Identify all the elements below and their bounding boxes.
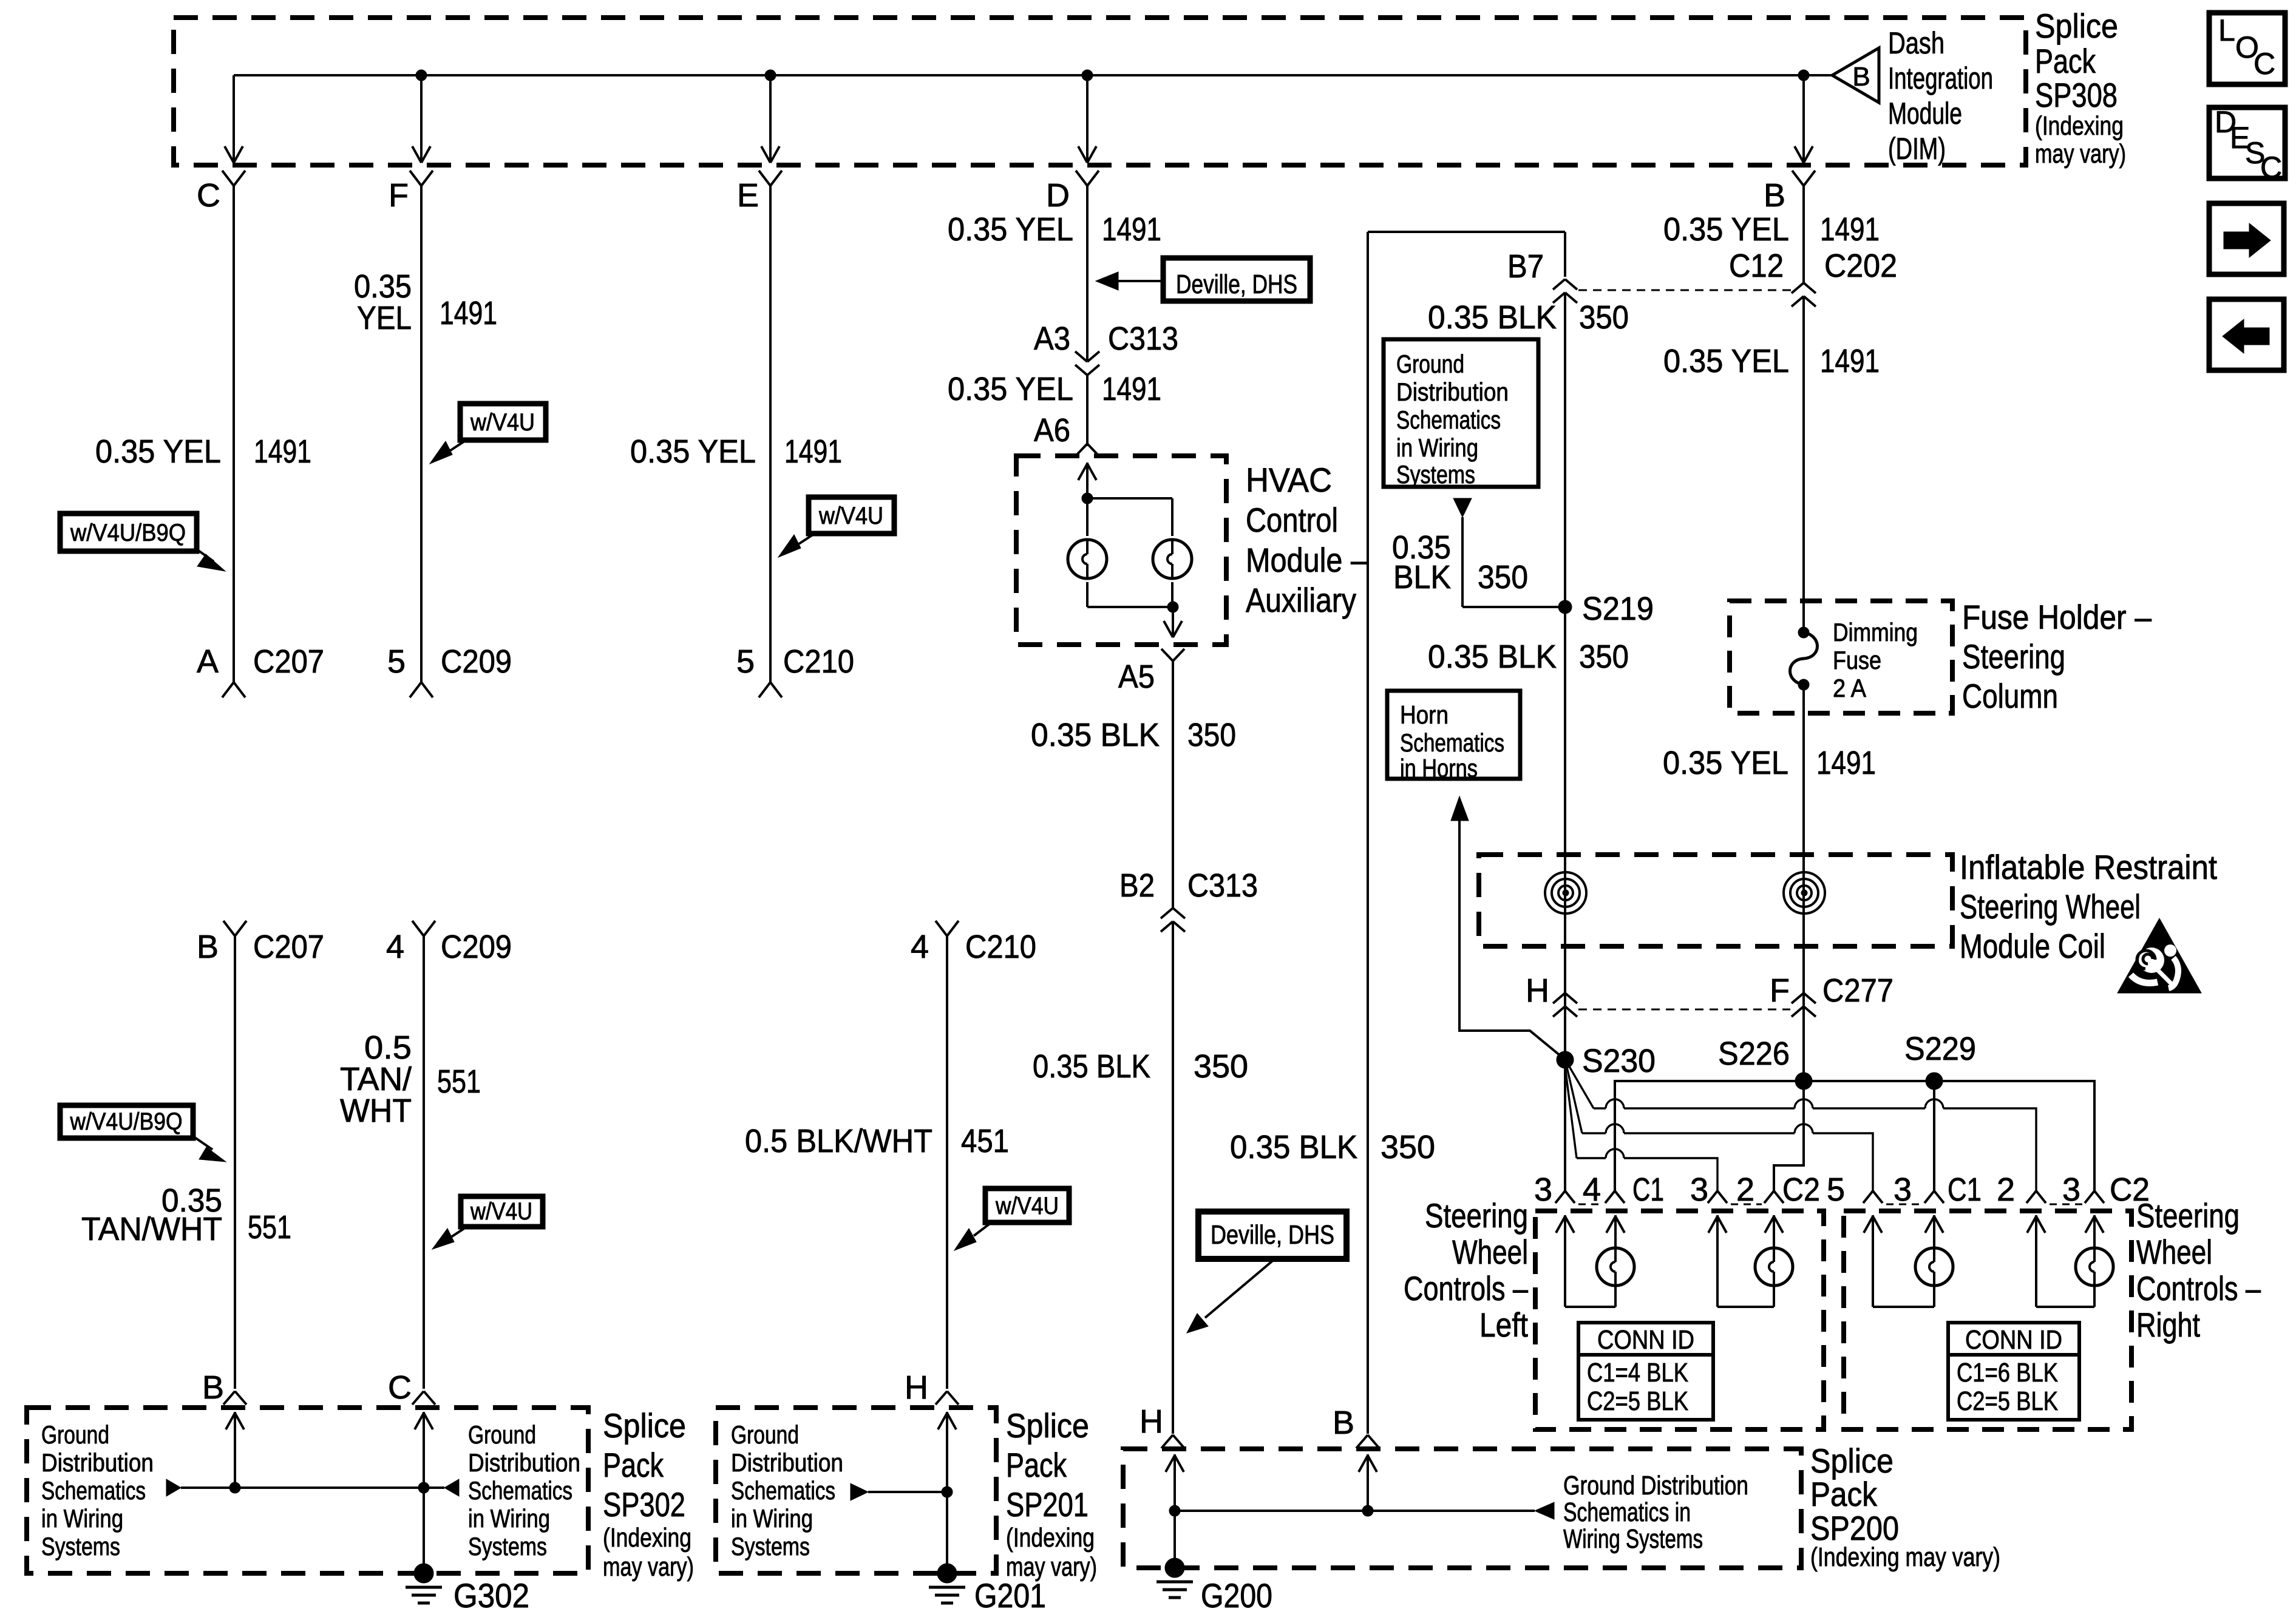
bus exit arrow bbox=[1078, 146, 1096, 163]
svg-text:551: 551 bbox=[248, 1209, 291, 1246]
label Splice Pack SP200 bbox=[1810, 1442, 2000, 1572]
wire A5 to C313 bbox=[1172, 661, 1174, 908]
label 0.35 YEL 1491 (E) bbox=[630, 433, 842, 470]
svg-text:Horn: Horn bbox=[1400, 700, 1449, 729]
connector name C1 (right) bbox=[1948, 1171, 1982, 1208]
note box w/V4U (E) bbox=[778, 497, 894, 557]
lamp HVAC left bbox=[1068, 540, 1107, 578]
svg-text:Pack: Pack bbox=[603, 1446, 664, 1484]
note box Deville DHS (upper) bbox=[1096, 258, 1310, 301]
connector name C2 (right) bbox=[2110, 1171, 2150, 1208]
svg-text:0.35 BLK: 0.35 BLK bbox=[1033, 1048, 1150, 1085]
wire drop F bbox=[420, 75, 423, 161]
svg-text:350: 350 bbox=[1381, 1129, 1435, 1165]
svg-text:CONN ID: CONN ID bbox=[1965, 1325, 2062, 1355]
svg-text:3: 3 bbox=[1690, 1171, 1708, 1208]
connector C277 F bbox=[1792, 972, 1894, 1017]
svg-text:0.35: 0.35 bbox=[354, 268, 412, 305]
fuse holder dashed box bbox=[1730, 601, 1952, 713]
svg-text:C1: C1 bbox=[1948, 1171, 1982, 1208]
svg-text:0.35 BLK: 0.35 BLK bbox=[1230, 1129, 1357, 1165]
label 0.35 YEL 1491 (B1) bbox=[1663, 211, 1880, 248]
svg-text:C2: C2 bbox=[1782, 1171, 1820, 1208]
svg-text:C: C bbox=[2254, 47, 2275, 81]
connector pin 2 bbox=[1736, 1171, 1784, 1208]
svg-text:5: 5 bbox=[1827, 1171, 1845, 1208]
svg-text:5: 5 bbox=[387, 643, 406, 680]
thin dashed link H-F bbox=[1578, 1009, 1790, 1011]
svg-text:C210: C210 bbox=[783, 643, 854, 680]
pin A6 bbox=[1034, 412, 1070, 449]
svg-text:Distribution: Distribution bbox=[731, 1448, 843, 1477]
svg-text:in Wiring: in Wiring bbox=[1396, 433, 1478, 462]
svg-text:in Wiring: in Wiring bbox=[468, 1504, 550, 1533]
SP302 wire B bbox=[226, 1412, 244, 1488]
svg-text:G200: G200 bbox=[1201, 1576, 1272, 1615]
svg-text:TAN/: TAN/ bbox=[340, 1061, 412, 1097]
junction dot B bbox=[1798, 70, 1809, 81]
fan level0 wire bbox=[1615, 1081, 2094, 1191]
ref arrow left (SP302) bbox=[166, 1479, 181, 1496]
svg-text:G302: G302 bbox=[453, 1576, 529, 1615]
bus exit arrow bbox=[225, 146, 243, 163]
pin A bbox=[197, 643, 219, 680]
svg-text:C202: C202 bbox=[1824, 248, 1897, 284]
CONN ID table (left) bbox=[1578, 1323, 1713, 1420]
svg-text:B: B bbox=[202, 1369, 224, 1406]
steering wheel controls right dashed box bbox=[1844, 1211, 2131, 1429]
svg-text:C277: C277 bbox=[1822, 972, 1894, 1009]
button DESC bbox=[2209, 105, 2285, 185]
connector pin 2 bbox=[1997, 1171, 2046, 1208]
connector A5 bbox=[1118, 649, 1184, 695]
fan level1 wire bbox=[1567, 1063, 2036, 1191]
svg-text:0.35 BLK: 0.35 BLK bbox=[1031, 717, 1160, 753]
connector pin 3 bbox=[1534, 1171, 1575, 1208]
connector pin 3 bbox=[1690, 1171, 1727, 1208]
wire B2 to SP200 bbox=[1172, 921, 1174, 1434]
wire B mid bbox=[1802, 296, 1805, 632]
splice S226 bbox=[1718, 1036, 1812, 1090]
svg-text:Left: Left bbox=[1479, 1306, 1528, 1344]
SP200 rail bbox=[1175, 1510, 1535, 1512]
connector C277 H bbox=[1553, 993, 1577, 1017]
HVAC module dashed box bbox=[1016, 456, 1226, 645]
svg-text:2: 2 bbox=[1997, 1171, 2015, 1208]
svg-text:350: 350 bbox=[1579, 639, 1629, 675]
button LOC bbox=[2209, 13, 2285, 84]
pin C (SP302) bbox=[388, 1369, 412, 1406]
connector E exit bbox=[759, 171, 782, 186]
svg-text:551: 551 bbox=[437, 1063, 481, 1100]
SP200 wire B bbox=[1359, 1454, 1377, 1511]
label 0.35 BLK 350 (B7) bbox=[1428, 299, 1629, 336]
pin B2 bbox=[1119, 867, 1155, 904]
svg-text:YEL: YEL bbox=[357, 300, 412, 336]
label 0.5 TAN/WHT 551 bbox=[340, 1029, 481, 1129]
svg-text:may vary): may vary) bbox=[1006, 1552, 1097, 1582]
pin letter B bbox=[1764, 177, 1785, 214]
svg-text:Distribution: Distribution bbox=[468, 1448, 580, 1477]
svg-text:G201: G201 bbox=[974, 1576, 1046, 1615]
label Steering Wheel Controls - Right bbox=[2136, 1196, 2261, 1344]
pin 5 (C209) bbox=[387, 643, 406, 680]
label Ground Distribution Schematics in Wiring Systems (SP200) bbox=[1563, 1471, 1748, 1554]
svg-text:A: A bbox=[197, 643, 219, 680]
connector C210 bbox=[759, 643, 854, 697]
svg-text:C12: C12 bbox=[1729, 248, 1784, 284]
svg-text:1491: 1491 bbox=[440, 295, 497, 331]
ref arrow (SP201) bbox=[851, 1483, 868, 1500]
svg-text:A5: A5 bbox=[1118, 659, 1155, 695]
pin H (C277) bbox=[1526, 972, 1549, 1009]
svg-text:Ground: Ground bbox=[1396, 350, 1464, 378]
svg-text:w/V4U/B9Q: w/V4U/B9Q bbox=[70, 1108, 183, 1135]
svg-text:C: C bbox=[2260, 151, 2282, 185]
pin 5 (C210) bbox=[736, 643, 755, 680]
splice pack SP201 dashed box bbox=[716, 1408, 996, 1573]
svg-text:5: 5 bbox=[736, 643, 755, 680]
svg-text:4: 4 bbox=[1583, 1171, 1601, 1208]
svg-text:Fuse Holder –: Fuse Holder – bbox=[1962, 598, 2152, 636]
svg-text:C1=4 BLK: C1=4 BLK bbox=[1587, 1358, 1688, 1388]
splice pack SP200 dashed box bbox=[1123, 1449, 1801, 1568]
svg-text:(Indexing: (Indexing bbox=[603, 1523, 691, 1553]
bus exit arrow bbox=[1795, 146, 1813, 163]
HVAC junction dot bbox=[1082, 493, 1093, 504]
svg-text:1491: 1491 bbox=[1102, 371, 1161, 407]
connector H into SP200 bbox=[1161, 1435, 1184, 1448]
wire S229 to pin 3 bbox=[1933, 1090, 1935, 1191]
svg-text:TAN/WHT: TAN/WHT bbox=[81, 1211, 222, 1247]
connector C313 upper bbox=[1075, 320, 1178, 375]
svg-text:A3: A3 bbox=[1034, 320, 1070, 357]
CONN ID table (right) bbox=[1948, 1323, 2079, 1420]
svg-text:C207: C207 bbox=[253, 929, 324, 965]
svg-text:S219: S219 bbox=[1582, 591, 1654, 627]
svg-text:Wiring Systems: Wiring Systems bbox=[1563, 1524, 1703, 1554]
label Splice Pack SP308 bbox=[2035, 7, 2126, 169]
svg-text:Integration: Integration bbox=[1888, 61, 1993, 95]
svg-text:C2=5 BLK: C2=5 BLK bbox=[1587, 1386, 1688, 1416]
ground G302 bbox=[406, 1564, 529, 1615]
svg-text:Systems: Systems bbox=[41, 1532, 120, 1561]
coil right bbox=[1784, 872, 1825, 914]
svg-text:Module Coil: Module Coil bbox=[1960, 927, 2105, 965]
svg-text:0.35 YEL: 0.35 YEL bbox=[948, 211, 1073, 248]
lamp HVAC right bbox=[1153, 540, 1192, 578]
pin A3 bbox=[1034, 320, 1070, 357]
svg-text:w/V4U: w/V4U bbox=[470, 409, 535, 436]
svg-text:B7: B7 bbox=[1507, 248, 1544, 285]
svg-text:w/V4U: w/V4U bbox=[470, 1198, 532, 1225]
svg-text:Control: Control bbox=[1246, 501, 1338, 539]
svg-text:B2: B2 bbox=[1119, 867, 1155, 904]
pin C12 bbox=[1729, 248, 1784, 284]
ref box Ground Distribution Schematics in Wiring Systems bbox=[1384, 339, 1538, 489]
SP302 rail bbox=[181, 1486, 444, 1489]
connector name C1 (left) bbox=[1632, 1171, 1664, 1208]
svg-text:SP302: SP302 bbox=[603, 1485, 685, 1524]
steering wheel controls left dashed box bbox=[1535, 1211, 1824, 1429]
HVAC entry wire bbox=[1078, 463, 1096, 536]
svg-text:SP308: SP308 bbox=[2035, 76, 2118, 114]
wire B upper bbox=[1802, 186, 1805, 283]
svg-text:B: B bbox=[1764, 177, 1785, 214]
svg-text:Wheel: Wheel bbox=[1452, 1233, 1528, 1271]
svg-text:C2=5 BLK: C2=5 BLK bbox=[1957, 1386, 2058, 1416]
ground G201 bbox=[929, 1564, 1046, 1615]
svg-text:Deville, DHS: Deville, DHS bbox=[1176, 269, 1297, 299]
connector pin 3 bbox=[2062, 1171, 2104, 1208]
SP200 wire H bbox=[1166, 1454, 1184, 1568]
svg-text:Column: Column bbox=[1962, 677, 2058, 715]
svg-text:SP200: SP200 bbox=[1810, 1509, 1899, 1547]
svg-text:1491: 1491 bbox=[254, 433, 311, 470]
svg-text:C1: C1 bbox=[1632, 1171, 1664, 1208]
svg-text:E: E bbox=[737, 177, 759, 214]
svg-text:may vary): may vary) bbox=[2035, 139, 2126, 169]
svg-text:H: H bbox=[1526, 972, 1549, 1009]
splice pack SP302 dashed box bbox=[27, 1408, 588, 1573]
splice pack SP308 dashed box bbox=[174, 18, 2026, 165]
svg-text:Schematics: Schematics bbox=[1400, 728, 1504, 757]
coil left bbox=[1545, 872, 1586, 914]
label 0.35 BLK 350 (B2) bbox=[1033, 1048, 1248, 1085]
wire C to C207 bbox=[233, 186, 235, 682]
label 0.5 BLK/WHT 451 bbox=[745, 1123, 1009, 1159]
svg-text:1491: 1491 bbox=[1816, 745, 1876, 781]
svg-text:350: 350 bbox=[1187, 717, 1236, 753]
connector C202 bbox=[1792, 248, 1897, 307]
svg-text:Schematics: Schematics bbox=[468, 1476, 572, 1505]
svg-text:4: 4 bbox=[911, 929, 929, 965]
svg-text:C313: C313 bbox=[1187, 867, 1258, 904]
pin B (SP200) bbox=[1333, 1405, 1354, 1441]
svg-text:w/V4U/B9Q: w/V4U/B9Q bbox=[70, 520, 186, 546]
svg-text:0.35 YEL: 0.35 YEL bbox=[95, 433, 221, 470]
svg-text:Dash: Dash bbox=[1888, 26, 1944, 60]
wire to S219 bbox=[1462, 517, 1565, 607]
svg-text:(DIM): (DIM) bbox=[1888, 132, 1946, 166]
wire S226 to pin 2 bbox=[1774, 1090, 1804, 1191]
svg-text:C1=6 BLK: C1=6 BLK bbox=[1957, 1358, 2058, 1388]
svg-text:C210: C210 bbox=[965, 929, 1036, 965]
svg-text:WHT: WHT bbox=[340, 1093, 412, 1129]
pin H (SP200) bbox=[1140, 1403, 1163, 1440]
ref arrow right (SP302) bbox=[444, 1479, 459, 1496]
label 0.35 YEL 1491 (B2) bbox=[1663, 343, 1880, 379]
svg-text:F: F bbox=[1770, 972, 1790, 1009]
connector B into SP200 bbox=[1356, 1435, 1379, 1448]
svg-text:H: H bbox=[905, 1369, 928, 1406]
svg-text:B: B bbox=[1333, 1405, 1354, 1441]
label Dimming Fuse 2 A bbox=[1833, 618, 1918, 702]
svg-text:Auxiliary: Auxiliary bbox=[1246, 581, 1356, 619]
svg-text:C209: C209 bbox=[441, 643, 512, 680]
svg-text:HVAC: HVAC bbox=[1246, 461, 1332, 499]
connector F exit bbox=[410, 171, 433, 186]
svg-text:Ground: Ground bbox=[468, 1420, 536, 1449]
svg-text:0.35 YEL: 0.35 YEL bbox=[1663, 745, 1788, 781]
svg-text:0.35 YEL: 0.35 YEL bbox=[1663, 211, 1789, 248]
label Ground Distribution (SP302 left) bbox=[41, 1420, 154, 1561]
svg-text:Right: Right bbox=[2136, 1306, 2200, 1344]
thin dashed link B7-C202 bbox=[1578, 290, 1791, 291]
svg-text:Schematics: Schematics bbox=[731, 1476, 835, 1505]
svg-text:0.35 BLK: 0.35 BLK bbox=[1428, 639, 1557, 675]
svg-text:0.35 YEL: 0.35 YEL bbox=[948, 371, 1073, 407]
svg-text:Systems: Systems bbox=[468, 1532, 547, 1561]
connector C exit bbox=[222, 171, 245, 186]
inflatable restraint dashed box bbox=[1479, 855, 1952, 946]
bus exit arrow bbox=[761, 146, 779, 163]
connector pin 4 bbox=[1583, 1171, 1625, 1208]
note box w/V4U (F) bbox=[430, 404, 546, 464]
svg-text:C313: C313 bbox=[1108, 320, 1178, 357]
junction dot E bbox=[765, 70, 776, 81]
wire horn to S230 bbox=[1459, 821, 1564, 1059]
svg-text:Controls –: Controls – bbox=[1404, 1269, 1529, 1307]
connector pin 5 bbox=[1827, 1171, 1883, 1208]
label Splice Pack SP302 bbox=[603, 1406, 694, 1582]
svg-text:1491: 1491 bbox=[1102, 211, 1161, 248]
svg-text:in Wiring: in Wiring bbox=[41, 1504, 123, 1533]
SP200 junction dots bbox=[1169, 1505, 1373, 1516]
label w/V4U/B9Q (2) bbox=[60, 1105, 226, 1162]
wire B lower bbox=[1802, 685, 1805, 1081]
dimming fuse bbox=[1790, 627, 1818, 690]
svg-text:A6: A6 bbox=[1034, 412, 1070, 449]
svg-text:451: 451 bbox=[961, 1123, 1009, 1159]
label Dash Integration Module (DIM) bbox=[1888, 26, 1993, 166]
splice S229 bbox=[1904, 1031, 1976, 1090]
wire drop E bbox=[769, 75, 772, 161]
note box w/V4U (C209) bbox=[432, 1196, 543, 1249]
pin letter C bbox=[197, 177, 220, 214]
wire loop top bbox=[1368, 231, 1565, 233]
connector C209 bbox=[410, 643, 512, 697]
connector B (SP302) bbox=[223, 1391, 246, 1405]
svg-text:(Indexing: (Indexing bbox=[2035, 111, 2124, 141]
connector D exit bbox=[1076, 171, 1099, 186]
note box w/V4U (C210) bbox=[954, 1188, 1069, 1250]
bus exit arrow bbox=[412, 146, 430, 163]
SP302 wire C bbox=[415, 1412, 433, 1573]
svg-text:Ground: Ground bbox=[41, 1420, 109, 1449]
connector C (SP302) bbox=[412, 1391, 435, 1405]
label 0.35 YEL 1491 bbox=[95, 433, 311, 470]
SP302 junction dots bbox=[229, 1482, 429, 1493]
pin letter F bbox=[389, 177, 409, 214]
pin B (SP302) bbox=[202, 1369, 224, 1406]
svg-text:in Horns: in Horns bbox=[1400, 754, 1478, 782]
svg-text:Controls –: Controls – bbox=[2136, 1269, 2261, 1307]
wire loop right top bbox=[1564, 232, 1566, 277]
HVAC exit wire bbox=[1164, 607, 1182, 637]
label Inflatable Restraint Steering Wheel Module Coil bbox=[1960, 848, 2217, 965]
button prev arrow bbox=[2209, 299, 2284, 370]
svg-text:may vary): may vary) bbox=[603, 1552, 694, 1582]
svg-text:3: 3 bbox=[2062, 1171, 2080, 1208]
label Fuse Holder - Steering Column bbox=[1962, 598, 2152, 715]
svg-text:w/V4U: w/V4U bbox=[995, 1193, 1059, 1219]
svg-text:0.5 BLK/WHT: 0.5 BLK/WHT bbox=[745, 1123, 932, 1159]
svg-text:Distribution: Distribution bbox=[41, 1448, 154, 1477]
pin B7 bbox=[1507, 248, 1544, 285]
connector C313 lower bbox=[1161, 867, 1258, 932]
svg-text:0.35 BLK: 0.35 BLK bbox=[1428, 299, 1557, 336]
svg-text:w/V4U: w/V4U bbox=[818, 503, 883, 529]
svg-text:Systems: Systems bbox=[1396, 460, 1475, 489]
connector pin 3 bbox=[1894, 1171, 1944, 1208]
svg-text:0.5: 0.5 bbox=[364, 1029, 412, 1066]
label 0.35 BLK 350 (A5) bbox=[1031, 717, 1236, 753]
label HVAC Control Module - Auxiliary bbox=[1246, 461, 1368, 619]
svg-text:SP201: SP201 bbox=[1006, 1485, 1089, 1524]
svg-text:Wheel: Wheel bbox=[2136, 1233, 2212, 1271]
pin H (SP201) bbox=[905, 1369, 928, 1406]
label Steering Wheel Controls - Left bbox=[1404, 1196, 1529, 1344]
svg-text:S226: S226 bbox=[1718, 1036, 1790, 1072]
connector name C2 (left) bbox=[1782, 1171, 1820, 1208]
wire drop D bbox=[1086, 75, 1089, 161]
off-page arrow (ground dist) bbox=[1453, 498, 1472, 517]
svg-text:Splice: Splice bbox=[2035, 7, 2118, 45]
lamp circuit left-1 bbox=[1556, 1215, 1634, 1307]
svg-text:0.35 YEL: 0.35 YEL bbox=[1663, 343, 1789, 379]
svg-text:Schematics: Schematics bbox=[1396, 405, 1501, 434]
svg-text:3: 3 bbox=[1534, 1171, 1552, 1208]
svg-text:CONN ID: CONN ID bbox=[1597, 1325, 1694, 1355]
svg-text:Dimming: Dimming bbox=[1833, 618, 1918, 646]
wire D lower bbox=[1086, 375, 1089, 446]
DIM triangle bbox=[1832, 48, 1879, 103]
svg-text:Ground: Ground bbox=[731, 1420, 799, 1449]
svg-text:L: L bbox=[2218, 13, 2235, 47]
svg-text:Steering Wheel: Steering Wheel bbox=[1960, 887, 2141, 926]
svg-text:Deville, DHS: Deville, DHS bbox=[1211, 1220, 1334, 1250]
svg-text:C: C bbox=[197, 177, 220, 214]
svg-text:Schematics in: Schematics in bbox=[1563, 1497, 1691, 1527]
fan level2 wire bbox=[1566, 1065, 1873, 1191]
wire drop B bbox=[1802, 75, 1805, 161]
HVAC junction dot 2 bbox=[1167, 602, 1178, 612]
svg-text:S229: S229 bbox=[1904, 1031, 1976, 1067]
label 0.35 YEL 1491 (D2) bbox=[948, 371, 1161, 407]
SP201 wire H bbox=[938, 1412, 956, 1573]
svg-text:4: 4 bbox=[386, 929, 404, 965]
connector H (SP201) bbox=[936, 1391, 959, 1405]
splice S230 bbox=[1557, 1043, 1656, 1079]
ref arrow (SP200) bbox=[1535, 1502, 1554, 1519]
svg-text:1491: 1491 bbox=[1820, 343, 1880, 379]
svg-text:2 A: 2 A bbox=[1833, 674, 1866, 702]
svg-text:C: C bbox=[388, 1369, 412, 1406]
label 0.35 YEL 1491 (D1) bbox=[948, 211, 1161, 248]
svg-text:1491: 1491 bbox=[1820, 211, 1880, 248]
svg-text:Schematics: Schematics bbox=[41, 1476, 146, 1505]
pin row dashes bbox=[1578, 1204, 2082, 1205]
wire C210-4 bbox=[911, 921, 1036, 1389]
svg-text:0.35 YEL: 0.35 YEL bbox=[630, 433, 756, 470]
svg-text:(Indexing: (Indexing bbox=[1006, 1523, 1095, 1553]
svg-text:Systems: Systems bbox=[731, 1532, 810, 1561]
svg-text:Distribution: Distribution bbox=[1396, 378, 1509, 406]
svg-text:3: 3 bbox=[1894, 1171, 1912, 1208]
fan level3 wire bbox=[1565, 1066, 1717, 1191]
svg-text:350: 350 bbox=[1579, 299, 1629, 336]
